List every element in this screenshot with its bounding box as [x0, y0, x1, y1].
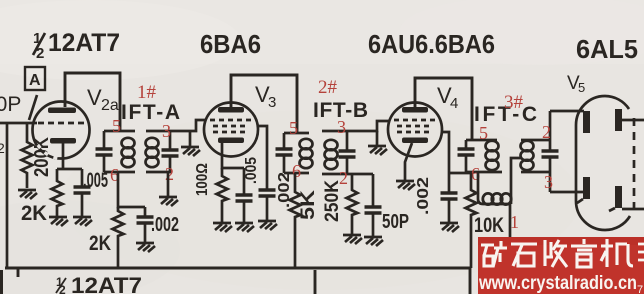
- wire: left border: [0, 270, 3, 294]
- coil: IFT-C tertiary: [478, 158, 521, 240]
- watermark hanzi shou: [545, 240, 567, 267]
- capacitor .002 (IFT-A): [136, 207, 179, 252]
- wire: IFT-A bottom to 2K: [118, 172, 145, 207]
- resistor 5K: [290, 173, 320, 268]
- svg-text:.002: .002: [415, 177, 432, 215]
- label V5: [567, 73, 585, 95]
- capacitor 50P: [364, 174, 409, 246]
- resistor 200K: [18, 122, 53, 199]
- wire: V4 plate to IFT-C: [415, 78, 472, 140]
- wire: divider 2: [469, 268, 472, 294]
- svg-text:V: V: [87, 85, 102, 110]
- svg-text:250K: 250K: [322, 180, 343, 222]
- resistor 10K: [466, 173, 505, 268]
- tube V5: [576, 96, 634, 230]
- svg-text:5: 5: [112, 116, 121, 136]
- svg-text:.005: .005: [243, 157, 260, 184]
- svg-text:.002: .002: [276, 172, 293, 208]
- node A box: [25, 67, 45, 90]
- watermark partial glyph right edge: [638, 244, 644, 260]
- svg-text:4: 4: [450, 95, 458, 112]
- svg-text:2: 2: [165, 164, 174, 184]
- svg-text:2#: 2#: [318, 77, 338, 98]
- wire: divider 1: [314, 270, 317, 294]
- svg-text:10K: 10K: [474, 214, 504, 237]
- watermark hanzi kuang: [481, 241, 507, 267]
- svg-text:7: 7: [637, 284, 643, 294]
- watermark url: [478, 273, 643, 294]
- svg-text:1: 1: [510, 212, 519, 232]
- svg-text:IFT-A: IFT-A: [121, 101, 180, 124]
- svg-text:3: 3: [544, 172, 553, 192]
- wire: V2a cathode: [57, 143, 82, 169]
- wire+capacitor .002 (V4 screen): [415, 132, 471, 232]
- IFT-B secondary: [322, 131, 356, 174]
- wire: left vertical to bus: [6, 122, 9, 268]
- svg-text:6BA6: 6BA6: [200, 29, 261, 59]
- label V2a: [87, 85, 119, 114]
- svg-text:1#: 1#: [137, 82, 157, 103]
- wire: V5 right leads: [622, 120, 644, 209]
- svg-text:5: 5: [479, 123, 488, 143]
- wire: IFT-B to V4 grid: [347, 121, 390, 131]
- IFT-B primary: [276, 133, 313, 173]
- svg-text:3#: 3#: [504, 92, 524, 113]
- wire: V3 plate to IFT-B: [231, 75, 297, 133]
- capacitor .005 (V3 cathode): [235, 157, 260, 232]
- IFT-A primary: [96, 131, 136, 172]
- watermark hanzi ji: [601, 239, 633, 267]
- wire: IFT-B bottom (AVC): [347, 173, 373, 176]
- IFT-C secondary: [521, 111, 559, 192]
- svg-text:www.crystalradio.cn: www.crystalradio.cn: [478, 273, 637, 294]
- svg-text:3: 3: [162, 121, 171, 141]
- svg-text:3: 3: [337, 117, 346, 137]
- wire: IFT-C to V5: [550, 111, 584, 192]
- ground (grid return): [368, 131, 387, 155]
- resistor 2K (V2a cathode): [21, 169, 68, 226]
- svg-text:12AT7: 12AT7: [48, 29, 120, 57]
- resistor 100ohm: [194, 163, 232, 232]
- svg-text:3: 3: [268, 94, 276, 111]
- ground IFT-A secondary: [159, 172, 178, 206]
- tube V2a: [33, 102, 90, 159]
- svg-text:12AT7: 12AT7: [71, 273, 142, 294]
- ground (grid return): [181, 131, 200, 156]
- svg-text:6: 6: [292, 161, 301, 181]
- svg-text:2K: 2K: [21, 202, 47, 225]
- svg-text:2a: 2a: [101, 97, 119, 114]
- svg-text:6AL5: 6AL5: [576, 34, 638, 64]
- watermark hanzi shi: [511, 244, 537, 266]
- wire: input grid line: [0, 122, 37, 125]
- resistor 250K: [322, 174, 362, 244]
- resistor 2K (IFT-A): [89, 207, 124, 268]
- svg-text:2: 2: [59, 283, 66, 294]
- capacitor .005 (V2a cathode): [73, 169, 108, 226]
- IFT-C primary: [458, 140, 503, 172]
- svg-text:.002: .002: [151, 214, 179, 236]
- wire: diagonal to A: [29, 95, 37, 120]
- svg-text:A: A: [29, 72, 41, 89]
- wire: bottom bus: [5, 267, 470, 270]
- svg-text:5: 5: [578, 80, 585, 95]
- svg-text:2: 2: [36, 45, 44, 62]
- svg-text:5K: 5K: [298, 190, 319, 220]
- wire+ground: V4 cathode: [396, 143, 415, 190]
- watermark hanzi yin: [571, 239, 597, 267]
- IFT-A secondary: [146, 131, 179, 172]
- watermark block: [478, 237, 644, 294]
- wire: IFT-A to V3 grid: [172, 120, 205, 131]
- tube label 1/2 12AT7 (bottom): [56, 273, 142, 294]
- wire+capacitor .002 (V3 screen): [258, 126, 293, 230]
- svg-text:2: 2: [542, 122, 551, 142]
- svg-text:2: 2: [0, 140, 5, 156]
- svg-text:100Ω: 100Ω: [194, 163, 211, 196]
- tube V4: [388, 103, 442, 157]
- label V3: [255, 82, 276, 111]
- wire: V3 cathode: [222, 143, 244, 168]
- svg-text:50P: 50P: [382, 211, 409, 233]
- wire: V2a plate to IFT-A: [65, 73, 120, 131]
- wire: bus tick: [17, 268, 20, 277]
- label V4: [437, 83, 458, 112]
- tube label 1/2 12AT7 (top): [33, 29, 120, 62]
- tube V3: [204, 103, 258, 157]
- svg-text:2K: 2K: [89, 232, 111, 255]
- svg-text:50P: 50P: [0, 93, 21, 116]
- svg-text:5: 5: [289, 118, 298, 138]
- svg-text:6AU6.6BA6: 6AU6.6BA6: [368, 29, 495, 59]
